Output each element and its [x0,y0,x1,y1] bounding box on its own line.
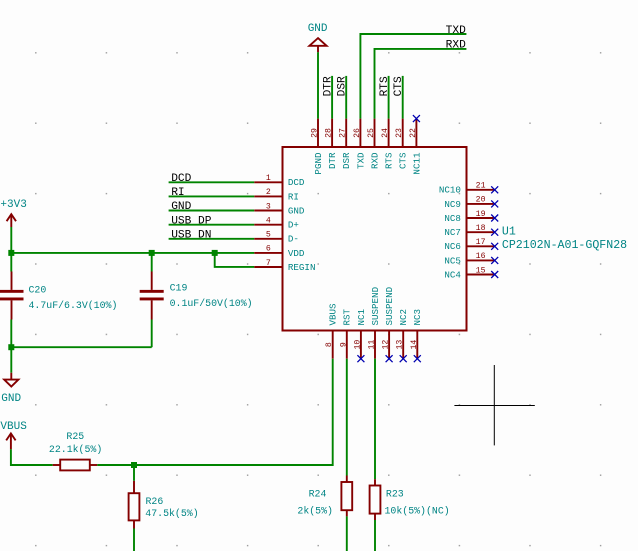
svg-text:7: 7 [266,259,271,268]
junction VDD rail at C19 [149,250,155,256]
svg-text:22.1k(5%): 22.1k(5%) [49,444,102,455]
IC U1 pin 26 (TXD) top [353,119,366,169]
IC U1 pin 5 (D-) left [254,231,299,245]
IC U1 pin 2 (RI) left [254,188,299,202]
svg-text:22: 22 [409,128,418,138]
no-connect pin 14 [414,355,421,362]
cursor crosshair [454,365,534,445]
no-connect pin 20 [491,200,498,207]
wire DTR [331,76,333,119]
IC U1 pin 1 (DCD) left [254,174,305,188]
svg-text:20: 20 [476,196,486,205]
IC U1 pin 8 (VBUS) bottom [325,303,338,359]
junction VDD rail at C20 [8,250,14,256]
svg-text:NC2: NC2 [398,309,409,326]
IC U1 pin 17 (NC6) right [444,238,494,252]
IC U1 pin 7 (REGIN) left [254,259,315,273]
no-connect pin 19 [491,215,498,222]
svg-text:NC5: NC5 [444,255,461,266]
resistor R25 [49,431,102,470]
svg-text:26: 26 [353,128,362,138]
no-connect pin 10 [357,355,364,362]
power symbol VBUS [0,421,27,449]
wire USB_DP [169,224,255,226]
svg-text:C19: C19 [170,282,188,293]
IC U1 pin 29 (PGND) top [311,119,324,175]
svg-text:NC6: NC6 [444,241,461,252]
no-connect pin 22 [413,115,420,122]
svg-text:18: 18 [476,224,486,233]
svg-text:VDD: VDD [288,248,305,259]
svg-text:CP2102N-A01-GQFN28: CP2102N-A01-GQFN28 [502,239,627,252]
svg-text:11: 11 [368,340,377,350]
svg-text:RST: RST [342,308,353,325]
power symbol GND (bottom) [1,373,21,405]
IC U1 pin 10 (NC1) bottom [353,308,366,358]
junction ground rail [8,344,14,350]
svg-text:CTS: CTS [398,152,409,169]
wire C20 bottom [10,320,12,348]
wire C19 bottom [151,320,153,348]
svg-text:0.1uF/50V(10%): 0.1uF/50V(10%) [170,298,253,309]
IC U1 pin 4 (D+) left [254,217,299,231]
no-connect pin 15 [491,271,498,278]
IC U1 pin 11 (SUSPEND) bottom [368,286,381,358]
svg-text:NC9: NC9 [444,199,461,210]
IC U1 pin 18 (NC7) right [444,224,494,238]
svg-text:NC3: NC3 [412,309,423,326]
svg-text:GND: GND [308,23,328,35]
svg-text:R23: R23 [386,489,404,500]
svg-text:14: 14 [410,340,419,350]
svg-text:U1: U1 [502,226,516,239]
svg-text:9: 9 [339,342,348,347]
IC U1 pin 16 (NC5) right [444,252,494,266]
svg-text:1: 1 [266,174,271,183]
capacitor C20 [0,272,117,320]
wire RXD [375,49,467,119]
svg-text:R26: R26 [146,496,164,507]
svg-text:23: 23 [395,128,404,138]
IC U1 pin 25 (RXD) top [367,119,380,169]
svg-text:SUSPEND: SUSPEND [384,286,395,325]
wire to GND symbol [10,347,12,373]
power symbol +3V3 [0,199,26,227]
svg-text:2: 2 [266,188,271,197]
svg-text:13: 13 [396,340,405,350]
svg-text:47.5k(5%): 47.5k(5%) [145,508,198,519]
svg-text:16: 16 [476,252,486,261]
IC U1 pin 12 (SUSPEND) bottom [382,286,395,358]
capacitor C19 [140,272,253,320]
IC U1 pin 6 (VDD) left [254,245,305,259]
svg-text:10: 10 [353,340,362,350]
svg-text:DCD: DCD [288,177,305,188]
svg-text:24: 24 [381,128,390,138]
wire R26 bottom [133,529,135,551]
junction R25/R26/VBUS [131,462,137,468]
IC U1 pin 24 (RTS) top [381,119,394,169]
svg-text:15: 15 [476,266,486,275]
wire RI [169,195,255,197]
svg-text:NC4: NC4 [444,269,461,280]
no-connect pin 21 [491,186,498,193]
IC U1 pin 15 (NC4) right [444,266,494,280]
svg-text:DSR: DSR [341,152,352,169]
svg-text:28: 28 [325,128,334,138]
svg-text:6: 6 [266,245,271,254]
wire C20 top [10,253,12,272]
IC U1 CP2102N-A01-GQFN28 body [283,147,467,331]
wire R23 bottom [374,520,376,551]
svg-text:12: 12 [382,340,391,350]
IC U1 pin 23 (CTS) top [395,119,408,169]
no-connect pin 12 [386,355,393,362]
no-connect pin 13 [400,355,407,362]
svg-text:D+: D+ [288,220,299,231]
wire VDD rail [11,252,254,254]
no-connect pin 17 [491,243,498,250]
svg-text:8: 8 [325,342,334,347]
IC U1 pin 13 (NC2) bottom [396,309,409,359]
svg-text:TXD: TXD [446,25,466,37]
svg-text:RTS: RTS [384,152,395,169]
svg-text:NC11: NC11 [411,152,422,175]
wire REGIN branch [215,253,255,267]
IC U1 pin 3 (GND) left [254,202,305,216]
junction VDD rail at REGIN branch [212,250,218,256]
svg-text:REGIN: REGIN [288,262,316,273]
IC U1 pin 9 (RST) bottom [339,308,352,358]
svg-text:+3V3: +3V3 [0,199,26,211]
svg-text:10k(5%)(NC): 10k(5%)(NC) [385,505,450,516]
wire C19 top [151,253,153,272]
IC U1 pin 14 (NC3) bottom [410,309,423,359]
svg-text:RI: RI [288,191,299,202]
IC U1 pin 19 (NC8) right [444,210,494,224]
svg-text:5: 5 [266,231,271,240]
svg-text:SUSPEND: SUSPEND [370,286,381,325]
wire junction to R26 [133,465,135,481]
wire pin29 PGND to GND symbol [317,52,319,118]
no-connect pin 18 [491,229,498,236]
wire GND [169,210,255,212]
IC U1 pin 22 (NC11) top [409,119,422,175]
wire R25 to pin 8 VBUS [97,359,332,465]
wire pin 9 RST to R24 [346,359,348,476]
svg-text:NC1: NC1 [356,308,367,325]
svg-text:2k(5%): 2k(5%) [297,505,333,516]
svg-text:PGND: PGND [313,152,324,175]
wire pin 11 SUSPEND to R23 [374,359,376,480]
svg-text:DTR: DTR [327,152,338,169]
IC U1 pin 20 (NC9) right [444,196,494,210]
wire +3V3 down [10,227,12,253]
svg-text:NC8: NC8 [444,213,461,224]
svg-text:RXD: RXD [446,40,466,52]
svg-text:17: 17 [476,238,486,247]
svg-text:TXD: TXD [355,152,366,169]
resistor R26 [129,481,199,529]
svg-text:RXD: RXD [369,152,380,169]
svg-text:NC7: NC7 [444,227,461,238]
svg-text:3: 3 [266,202,271,211]
svg-text:4.7uF/6.3V(10%): 4.7uF/6.3V(10%) [29,300,118,311]
svg-text:27: 27 [339,128,348,138]
svg-text:VBUS: VBUS [0,421,27,433]
no-connect pin 16 [491,257,498,264]
wire R24 bottom [346,516,348,551]
IC U1 pin 28 (DTR) top [325,119,338,169]
wire DCD [169,181,255,183]
wire DSR [345,76,347,119]
svg-text:R24: R24 [309,489,327,500]
svg-text:R25: R25 [66,431,84,442]
IC U1 pin 27 (DSR) top [339,119,352,169]
wire RTS [388,76,390,119]
svg-text:D-: D- [288,234,299,245]
svg-text:29: 29 [311,128,320,138]
svg-text:NC10: NC10 [439,185,461,196]
svg-text:C20: C20 [29,285,47,296]
svg-text:GND: GND [1,393,21,405]
svg-text:VBUS: VBUS [328,303,339,326]
power symbol GND (top) [308,23,328,52]
wire TXD [360,34,466,119]
resistor R24 [297,476,352,517]
wire CTS [402,76,404,119]
svg-text:21: 21 [476,182,486,191]
svg-text:GND: GND [288,205,305,216]
resistor R23 [370,479,450,520]
wire USB_DN [169,238,255,240]
wire ground rail [11,346,151,348]
IC U1 pin 21 (NC10) right [439,182,495,196]
svg-text:19: 19 [476,210,486,219]
svg-text:4: 4 [266,217,271,226]
svg-text:25: 25 [367,128,376,138]
wire VBUS to R25 [11,449,53,465]
